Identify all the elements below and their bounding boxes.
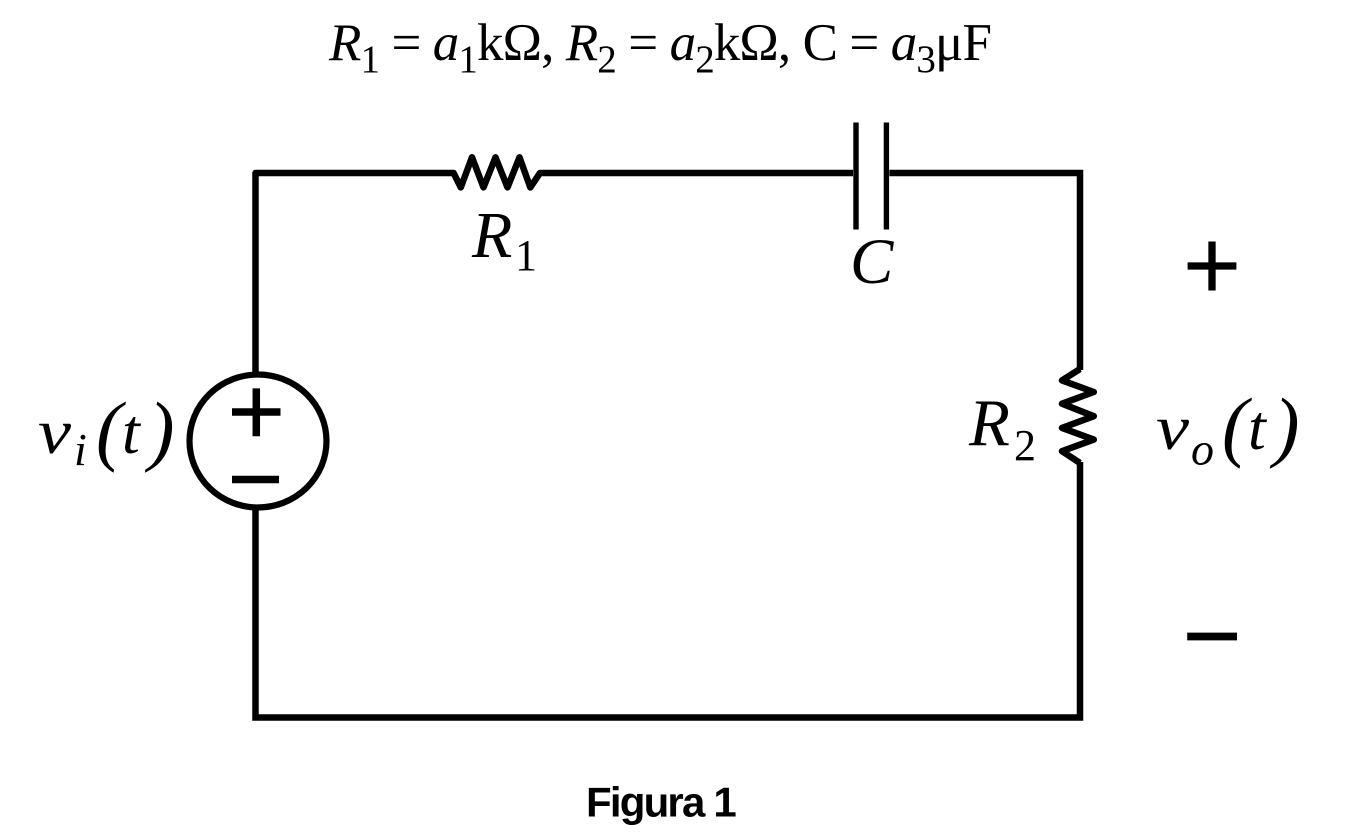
svg-text:v: v <box>38 396 72 467</box>
svg-text:R: R <box>968 386 1010 460</box>
svg-text:C: C <box>850 226 894 298</box>
svg-text:1: 1 <box>515 231 537 280</box>
svg-text:i: i <box>74 424 87 475</box>
svg-text:): ) <box>145 386 175 473</box>
svg-text:o: o <box>1191 424 1214 475</box>
svg-text:R1 = a1kΩ, R2 = a2kΩ, C = a3μF: R1 = a1kΩ, R2 = a2kΩ, C = a3μF <box>328 14 991 81</box>
svg-text:2: 2 <box>1014 421 1036 470</box>
svg-text:t: t <box>122 396 142 467</box>
svg-text:v: v <box>1156 392 1190 463</box>
svg-text:Figura 1: Figura 1 <box>586 779 736 826</box>
svg-text:): ) <box>1270 382 1300 469</box>
svg-text:R: R <box>471 199 512 272</box>
svg-text:t: t <box>1248 392 1268 463</box>
